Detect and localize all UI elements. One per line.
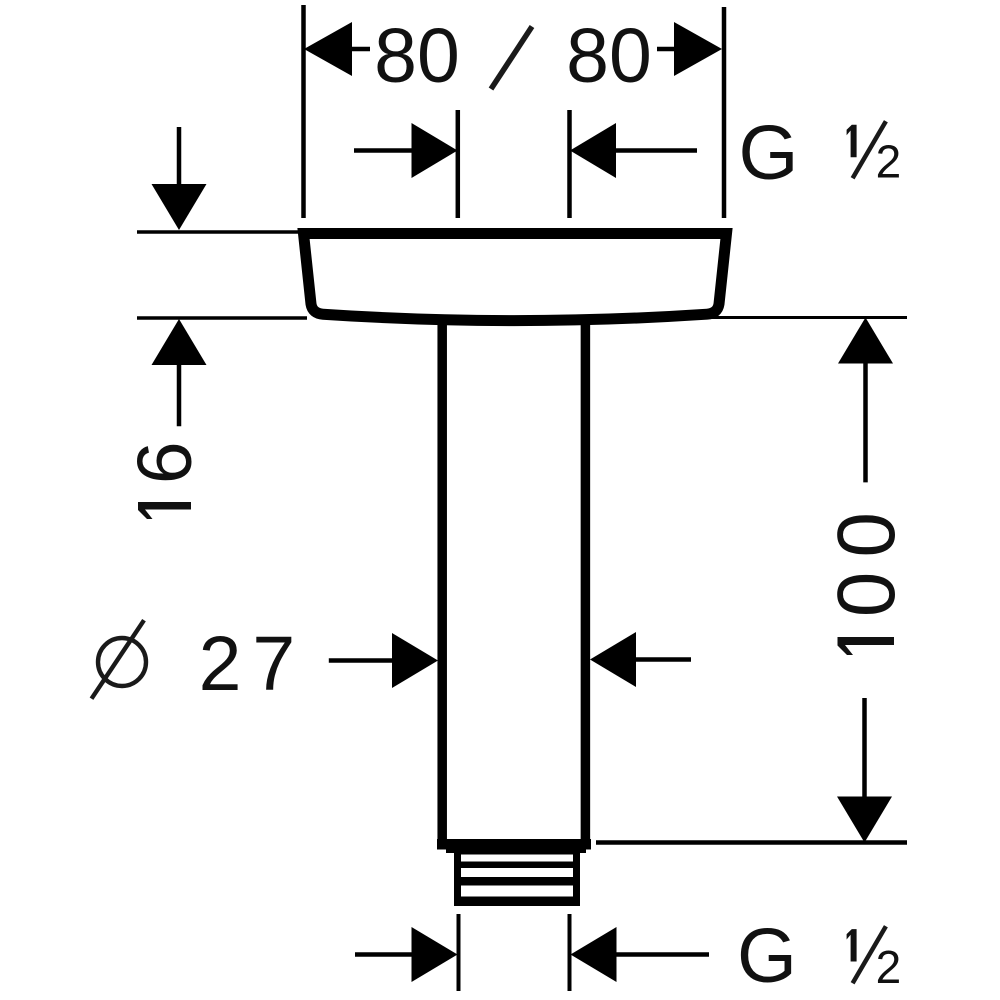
svg-text:G: G bbox=[737, 913, 797, 999]
svg-text:2: 2 bbox=[876, 135, 902, 187]
svg-text:80: 80 bbox=[374, 13, 460, 99]
svg-text:6: 6 bbox=[122, 441, 208, 484]
svg-text:G: G bbox=[739, 110, 799, 196]
svg-text:80: 80 bbox=[566, 13, 652, 99]
svg-text:00: 00 bbox=[821, 498, 912, 617]
svg-text:27: 27 bbox=[199, 621, 307, 707]
svg-text:2: 2 bbox=[876, 941, 902, 993]
